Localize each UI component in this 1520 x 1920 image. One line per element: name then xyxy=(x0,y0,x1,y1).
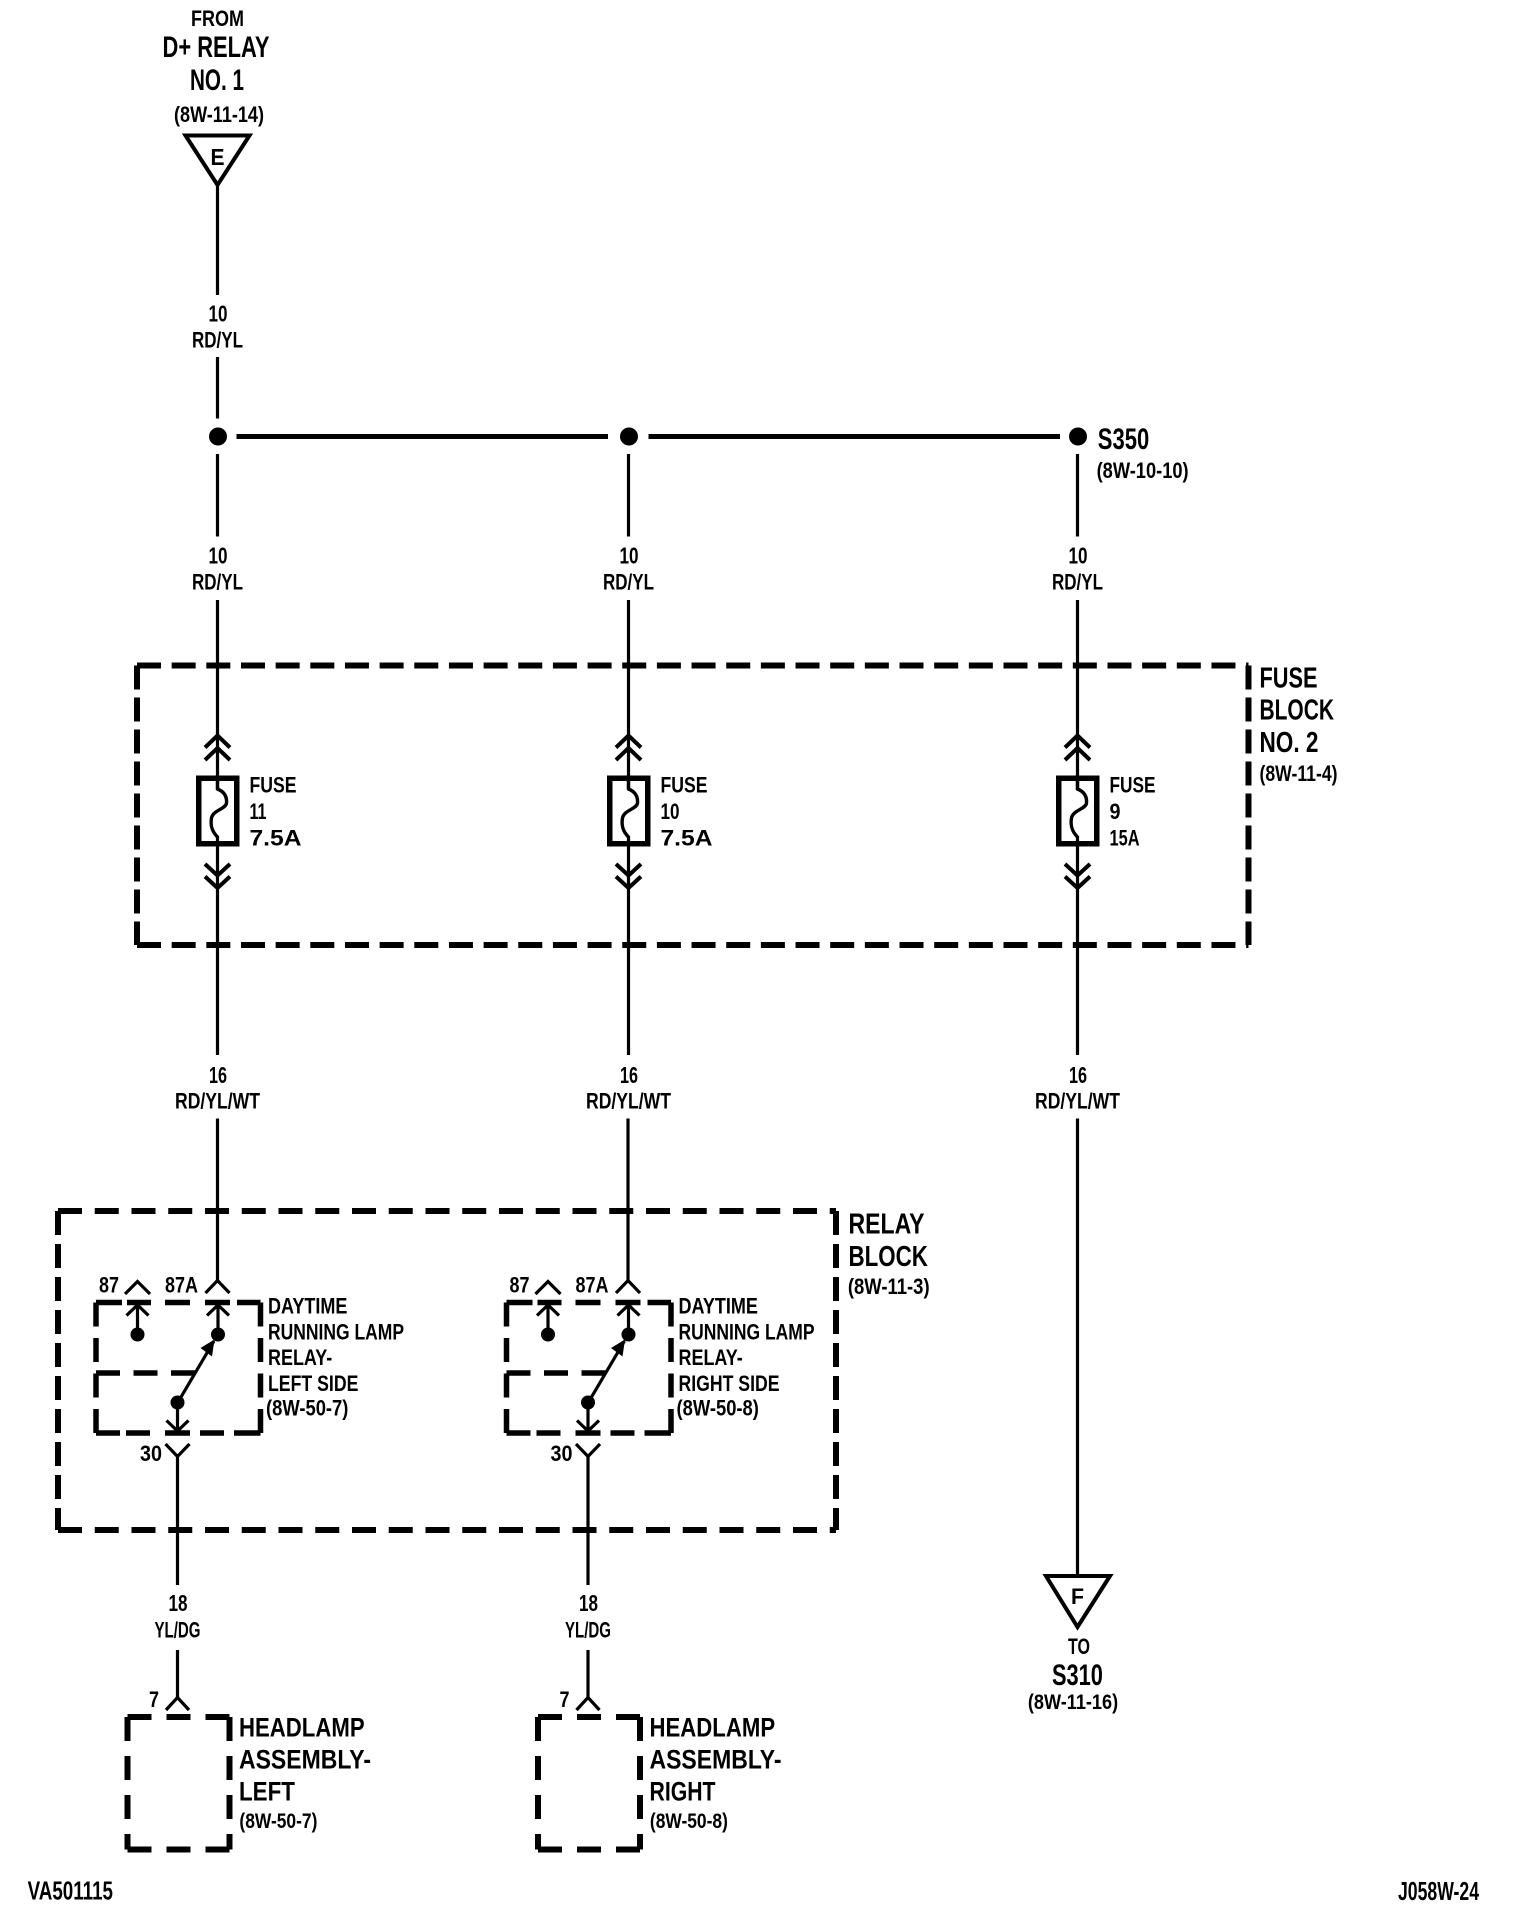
svg-text:10: 10 xyxy=(661,799,680,824)
off-page connector E triangle xyxy=(186,136,250,186)
svg-text:DAYTIME: DAYTIME xyxy=(679,1294,758,1319)
svg-text:RUNNING LAMP: RUNNING LAMP xyxy=(268,1320,404,1345)
svg-text:F: F xyxy=(1071,1584,1084,1609)
svg-text:ASSEMBLY-: ASSEMBLY- xyxy=(650,1745,782,1775)
svg-text:BLOCK: BLOCK xyxy=(1260,695,1335,727)
svg-text:RD/YL: RD/YL xyxy=(192,328,243,353)
svg-text:RELAY-: RELAY- xyxy=(679,1345,743,1370)
svg-text:LEFT SIDE: LEFT SIDE xyxy=(268,1371,358,1396)
fuse block box top edge xyxy=(137,663,1249,669)
svg-text:RELAY: RELAY xyxy=(849,1209,925,1241)
svg-text:10: 10 xyxy=(209,301,228,327)
svg-text:J058W-24: J058W-24 xyxy=(1398,1876,1479,1906)
svg-text:FUSE: FUSE xyxy=(661,773,708,798)
fuse block box left edge xyxy=(134,666,140,946)
svg-text:9: 9 xyxy=(1110,799,1121,824)
svg-text:(8W-50-8): (8W-50-8) xyxy=(650,1810,728,1833)
svg-text:FROM: FROM xyxy=(191,6,244,31)
bus segment left xyxy=(237,434,609,439)
svg-text:DAYTIME: DAYTIME xyxy=(268,1294,347,1319)
svg-text:HEADLAMP: HEADLAMP xyxy=(650,1713,776,1743)
svg-text:(8W-50-8): (8W-50-8) xyxy=(677,1396,759,1421)
svg-text:FUSE: FUSE xyxy=(1260,663,1318,695)
svg-text:7.5A: 7.5A xyxy=(250,826,302,851)
svg-text:BLOCK: BLOCK xyxy=(849,1241,928,1273)
svg-text:(8W-11-4): (8W-11-4) xyxy=(1260,761,1338,786)
right daytime running lamp relay xyxy=(507,1119,672,1850)
svg-text:(8W-50-7): (8W-50-7) xyxy=(239,1810,317,1833)
svg-text:HEADLAMP: HEADLAMP xyxy=(239,1713,365,1743)
svg-text:(8W-10-10): (8W-10-10) xyxy=(1097,458,1189,483)
svg-text:RELAY-: RELAY- xyxy=(268,1345,332,1370)
svg-text:D+ RELAY: D+ RELAY xyxy=(163,31,270,64)
middle column fuse run xyxy=(586,428,671,1114)
svg-text:S350: S350 xyxy=(1098,423,1149,456)
relay block box top edge xyxy=(58,1208,836,1214)
svg-text:VA501115: VA501115 xyxy=(28,1876,113,1906)
svg-text:(8W-11-16): (8W-11-16) xyxy=(1028,1691,1118,1714)
relay block box left edge xyxy=(55,1211,61,1530)
svg-text:E: E xyxy=(211,144,225,170)
left column fuse run xyxy=(175,428,260,1114)
svg-text:ASSEMBLY-: ASSEMBLY- xyxy=(239,1745,371,1775)
svg-text:(8W-50-7): (8W-50-7) xyxy=(266,1396,348,1421)
svg-text:S310: S310 xyxy=(1052,1659,1103,1692)
svg-text:15A: 15A xyxy=(1110,826,1140,851)
svg-text:FUSE: FUSE xyxy=(1110,773,1156,798)
bus segment right xyxy=(649,434,1061,439)
wire from connector E xyxy=(216,185,219,295)
svg-text:NO. 2: NO. 2 xyxy=(1260,727,1319,759)
off-page connector F triangle xyxy=(1046,1576,1110,1627)
svg-text:11: 11 xyxy=(250,799,267,824)
svg-text:NO. 1: NO. 1 xyxy=(190,64,244,97)
svg-text:FUSE: FUSE xyxy=(250,773,297,798)
left daytime running lamp relay xyxy=(96,1119,261,1850)
svg-text:7.5A: 7.5A xyxy=(661,826,713,851)
right column long wire to S310 xyxy=(1076,1119,1079,1577)
fuse block box bottom edge xyxy=(137,942,1249,948)
wire to bus xyxy=(216,357,219,419)
relay block box bottom edge xyxy=(58,1527,836,1533)
svg-text:(8W-11-3): (8W-11-3) xyxy=(848,1274,930,1299)
right column fuse run xyxy=(1035,428,1120,1114)
svg-text:RUNNING LAMP: RUNNING LAMP xyxy=(679,1320,815,1345)
svg-text:RIGHT SIDE: RIGHT SIDE xyxy=(679,1371,780,1396)
svg-text:TO: TO xyxy=(1068,1634,1090,1659)
svg-text:RIGHT: RIGHT xyxy=(650,1777,716,1807)
relay block box right edge xyxy=(833,1211,839,1530)
svg-text:(8W-11-14): (8W-11-14) xyxy=(174,102,264,127)
svg-text:LEFT: LEFT xyxy=(239,1777,295,1807)
fuse block box right edge xyxy=(1246,666,1252,946)
